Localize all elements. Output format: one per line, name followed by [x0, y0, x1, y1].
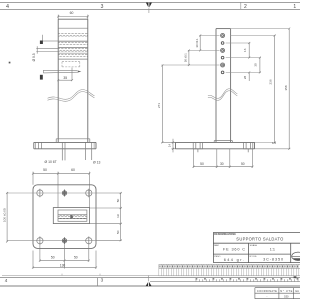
stray dot artifact: [9, 62, 11, 64]
front view hatched band 4: [58, 54, 88, 57]
bottom ruler ticks: [196, 278, 298, 282]
plan view top hole row centerline: [7, 192, 96, 194]
svg-text:50: 50: [74, 256, 78, 260]
dimension 35 line: [57, 68, 73, 82]
svg-text:16: 16: [243, 48, 247, 52]
front view break squiggle: [48, 90, 95, 102]
front view hatched band 3: [58, 48, 88, 52]
svg-text:N° UTE: N° UTE: [280, 289, 292, 293]
svg-text:60: 60: [70, 11, 74, 15]
front view hatched band 2: [58, 42, 88, 46]
svg-text:2: 2: [244, 4, 247, 10]
svg-text:SCALA: SCALA: [250, 244, 258, 247]
central slot inner tube outline: [58, 210, 87, 221]
corner hole top-left: [37, 189, 43, 198]
border frame top outer line: [0, 1, 300, 3]
hole dia 9.5 extension lines: [36, 46, 58, 53]
svg-text:644 gr.: 644 gr.: [224, 258, 244, 262]
title block outline: [213, 232, 300, 262]
middle tapped hole top: [62, 190, 66, 197]
middle tapped hole bottom: [62, 237, 66, 244]
svg-text:3: 3: [101, 4, 104, 10]
plan view top dimension line: [32, 172, 90, 208]
front view column inner line 1: [58, 27, 88, 29]
front view base plate: [34, 142, 96, 148]
border frame bottom inner line: [0, 277, 300, 279]
corner hole top-right: [86, 189, 92, 198]
side view hole 2: [221, 42, 224, 45]
side view column outline: [216, 29, 231, 143]
right hole lines (dia 13): [85, 142, 91, 160]
bottom cell strip: [159, 264, 300, 275]
svg-text:60: 60: [71, 168, 75, 172]
svg-text:50: 50: [116, 230, 120, 234]
side view dim 50 (left): [188, 49, 190, 66]
svg-text:DENOMINAZIONE: DENOMINAZIONE: [214, 233, 236, 236]
svg-text:530: 530: [284, 295, 289, 299]
side view dim 30 (right): [259, 57, 261, 74]
upper leader feature with dark tag: [43, 35, 59, 44]
side view plate hole box left: [193, 142, 202, 152]
side view weld flare: [214, 141, 232, 143]
svg-text:35: 35: [63, 76, 67, 80]
svg-text:3C-8350: 3C-8350: [263, 258, 283, 262]
bottom centering triangle: [146, 276, 152, 287]
front view column inner line 5: [58, 58, 88, 60]
svg-text:Ø 13: Ø 13: [93, 160, 100, 164]
hidden slot (dashed) in column: [62, 62, 80, 67]
svg-text:Ø 9.5: Ø 9.5: [32, 53, 36, 61]
side view right extensions: [226, 43, 261, 72]
svg-text:1: 1: [293, 4, 296, 10]
svg-text:50 ±0.1: 50 ±0.1: [183, 53, 187, 62]
svg-text:30 ±0.1: 30 ±0.1: [195, 38, 199, 47]
svg-text:MAT.: MAT.: [214, 244, 219, 247]
bottom ruler number smudges: [196, 278, 299, 279]
auxiliary strip tick 2: [99, 274, 101, 276]
corner hole bottom-left: [37, 236, 43, 245]
side view top extension line: [231, 28, 290, 30]
svg-text:N° DIS.: N° DIS.: [250, 256, 258, 258]
side view bottom dimension 50 30 50: [193, 149, 254, 168]
border frame bottom outer line: [0, 285, 300, 287]
plan view bottom hole row centerline: [7, 240, 96, 242]
lower leader arrowhead: [78, 71, 82, 73]
side view hole 6: [221, 71, 224, 74]
bottom cell strip header marks: [160, 265, 298, 267]
svg-text:100 ±0.05: 100 ±0.05: [2, 208, 6, 222]
front view weld flare: [56, 139, 90, 143]
svg-text:50: 50: [51, 256, 55, 260]
plan view plate with rounded corners: [33, 185, 96, 249]
svg-text:FE 360 C: FE 360 C: [223, 247, 245, 251]
svg-text:30: 30: [253, 63, 257, 67]
border frame top inner line: [0, 8, 300, 10]
top zone tick b: [240, 2, 242, 9]
svg-text:14: 14: [168, 144, 172, 148]
title block logo: [292, 252, 305, 260]
svg-text:50: 50: [200, 162, 204, 166]
svg-text:4: 4: [5, 278, 8, 283]
side view hole 1: [221, 34, 225, 38]
bottom ruler baseline: [150, 281, 300, 283]
side view break squiggle: [208, 89, 237, 101]
svg-text:4: 4: [6, 4, 9, 10]
coordinate table: [255, 288, 300, 299]
lower leader dark tag: [40, 75, 43, 80]
bottom zone tick: [97, 278, 99, 286]
svg-text:-: -: [266, 296, 267, 299]
top centering triangle: [146, 3, 152, 13]
plan view 100 dimension (left, rotated): [6, 192, 8, 243]
front view: 60 dimension line: [57, 15, 89, 20]
side view dim 30 (left): [199, 35, 201, 52]
front view column inner line 4: [58, 52, 88, 54]
front view column inner line 2: [58, 40, 88, 42]
side view dim 236 (right tall): [231, 35, 276, 144]
ruler end dark mark: [294, 276, 297, 278]
svg-text:PESO: PESO: [214, 256, 220, 258]
side view hole 3: [221, 48, 225, 52]
svg-text:271: 271: [157, 103, 161, 108]
svg-text:COORDINATE: COORDINATE: [257, 289, 277, 293]
front view hatched band 1: [58, 33, 88, 37]
plan view bottom dimension 130: [32, 251, 97, 269]
slot center dark mark: [70, 215, 73, 218]
slot inner band hatch: [58, 215, 87, 219]
svg-text:358: 358: [284, 85, 288, 90]
side view plate hole box right: [244, 142, 253, 152]
side view base plate: [176, 142, 255, 148]
svg-text:1:1: 1:1: [270, 247, 275, 251]
svg-text:GA: GA: [295, 289, 299, 293]
side view dim 271 (left tall): [161, 64, 175, 143]
plan view bottom dimension 50 50: [39, 244, 90, 269]
svg-text:50: 50: [116, 199, 120, 203]
plate end inner lines: [36, 142, 94, 148]
side view plate thickness dim 14: [172, 139, 176, 153]
side view hole 4: [221, 56, 224, 59]
side view hole 5: [221, 63, 225, 67]
corner hole bottom-right: [86, 236, 92, 245]
svg-text:3: 3: [101, 277, 104, 282]
svg-text:1.5: 1.5: [272, 141, 276, 145]
upper leader dark tag: [40, 41, 43, 45]
plan view right dimension chain: [90, 192, 122, 241]
side view left extensions: [161, 36, 219, 66]
bottom left auxiliary strip line: [2, 275, 159, 277]
side view dim 358 (far right tall): [255, 28, 291, 150]
bottom cell strip dividers: [159, 264, 299, 275]
svg-text:SUPPORTO SALDATO: SUPPORTO SALDATO: [236, 236, 283, 241]
side view dim 28: [248, 71, 250, 81]
front view column inner line 3: [58, 47, 88, 49]
svg-text:130: 130: [60, 263, 66, 267]
svg-text:Ø 10 6T: Ø 10 6T: [45, 160, 57, 164]
front view column outline: [58, 19, 88, 142]
slot inner band line bottom: [58, 218, 87, 220]
svg-text:50: 50: [241, 162, 245, 166]
left corner hole lines in plate: [38, 142, 41, 148]
svg-text:28: 28: [243, 76, 247, 80]
central slot outer weld outline: [53, 208, 89, 224]
svg-text:19: 19: [116, 214, 120, 218]
center tapped hole lines (dia 10 6T): [62, 142, 65, 160]
svg-text:30: 30: [220, 162, 224, 166]
auxiliary strip tick 1: [61, 274, 63, 276]
svg-text:236: 236: [268, 79, 272, 84]
lower leader with arrow: [43, 70, 78, 73]
slot inner band line top: [58, 214, 87, 216]
side view dim 16: [248, 42, 250, 59]
svg-text:50: 50: [43, 168, 47, 172]
